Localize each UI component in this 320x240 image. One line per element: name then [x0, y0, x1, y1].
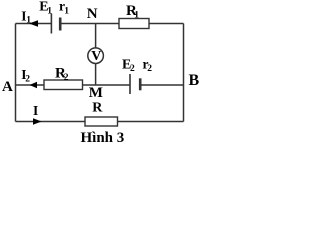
svg-text:1: 1: [64, 7, 69, 17]
svg-text:V: V: [91, 49, 101, 64]
svg-text:2: 2: [25, 75, 30, 85]
svg-text:R: R: [92, 101, 103, 116]
svg-text:1: 1: [47, 7, 52, 17]
svg-text:B: B: [189, 72, 200, 89]
svg-text:1: 1: [26, 15, 31, 25]
svg-text:2: 2: [130, 64, 135, 74]
svg-text:N: N: [87, 6, 98, 22]
svg-text:M: M: [89, 85, 103, 101]
svg-text:2: 2: [147, 64, 152, 74]
svg-text:Hình 3: Hình 3: [81, 130, 125, 146]
svg-text:I: I: [33, 103, 38, 118]
svg-text:1: 1: [134, 11, 139, 21]
svg-text:2: 2: [64, 73, 69, 83]
svg-text:A: A: [2, 79, 13, 95]
